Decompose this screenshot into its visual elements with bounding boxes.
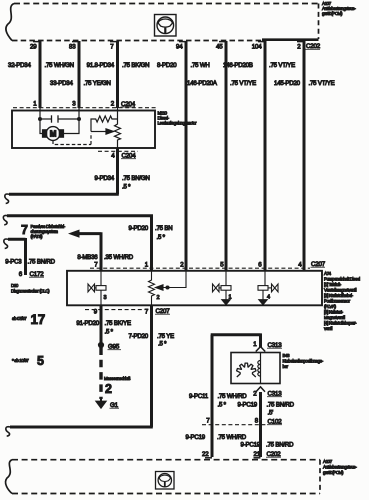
svg-text:9-PD20: 9-PD20 bbox=[129, 225, 149, 232]
connector C202 label (bottom) bbox=[266, 451, 281, 458]
valve 1 Taktluft-Verstellmagnetventil bbox=[213, 271, 232, 301]
svg-text:Antriebsstrangsteue-: Antriebsstrangsteue- bbox=[323, 465, 357, 470]
svg-text:5: 5 bbox=[37, 354, 44, 368]
connector C207 label (bottom) bbox=[155, 308, 170, 315]
ground-to-case arrow (valve 1) bbox=[222, 300, 231, 306]
svg-text:2: 2 bbox=[180, 262, 184, 269]
svg-text:22: 22 bbox=[202, 451, 209, 458]
connector C313 label (pin1) bbox=[267, 342, 282, 349]
module A74 box bbox=[67, 271, 322, 306]
svg-text:.75 WH: .75 WH bbox=[191, 62, 210, 69]
sensor B43 box bbox=[231, 353, 280, 384]
PCM pin 94 bbox=[176, 42, 186, 51]
valve 4 Kraftstoffabsperrventil bbox=[258, 271, 278, 301]
svg-text:2: 2 bbox=[297, 44, 301, 51]
svg-text:.5 *: .5 * bbox=[105, 329, 114, 336]
svg-text:[4] Kraftstoffabsperr-: [4] Kraftstoffabsperr- bbox=[324, 321, 357, 326]
PCM pin 83 bbox=[69, 42, 79, 51]
svg-text:.75 VT/YE: .75 VT/YE bbox=[309, 80, 335, 87]
wire 8-MB36 .35 WH/RD (arrow from left, to A74 pin7) bbox=[70, 230, 102, 270]
svg-text:M: M bbox=[50, 130, 57, 139]
svg-text:.5 *: .5 * bbox=[158, 341, 167, 348]
svg-text:8-PD20: 8-PD20 bbox=[157, 62, 177, 69]
svg-text:9-PD34: 9-PD34 bbox=[95, 175, 115, 182]
svg-text:33-PD34: 33-PD34 bbox=[50, 80, 73, 87]
svg-text:1: 1 bbox=[33, 101, 37, 108]
wire label 9-PD34 .75 BN/GN bbox=[95, 175, 150, 191]
valve 3 Kaltstart-Magnetventil bbox=[88, 271, 107, 306]
motor M (idle control motor) bbox=[40, 119, 79, 140]
wire label 32-PD34 .75 WH/GN bbox=[8, 62, 74, 69]
svg-text:94: 94 bbox=[176, 44, 183, 51]
wire 8-PD20 (pin94 to A74 pin2) bbox=[185, 41, 188, 271]
svg-text:.35 WH/RD: .35 WH/RD bbox=[104, 254, 134, 261]
connector C102 (in-line) bbox=[202, 418, 282, 426]
svg-text:gerät (PCM): gerät (PCM) bbox=[322, 11, 343, 16]
wire 145-PD20 (pin2 to A74 pin4) bbox=[303, 41, 306, 271]
label D20 Diagnosestecker (DLC) bbox=[11, 283, 50, 294]
wire 9-PC19 .75 BN/RD (B43 pin2 down to PCM pin21) bbox=[259, 392, 262, 457]
svg-text:7-PD20: 7-PD20 bbox=[129, 333, 149, 340]
circuit ref 7 PATS bbox=[21, 223, 66, 239]
ground symbol G1 bbox=[96, 397, 107, 409]
svg-text:146-PD20A: 146-PD20A bbox=[187, 80, 218, 87]
svg-text:.5 *: .5 * bbox=[122, 184, 131, 191]
svg-text:9-PC19: 9-PC19 bbox=[241, 442, 261, 449]
wire 91-PD20 .75 BK/YE (A74 pin9 to ground) bbox=[100, 306, 103, 344]
svg-text:91.8-PD34: 91.8-PD34 bbox=[87, 62, 115, 69]
svg-text:.75 WH/RD: .75 WH/RD bbox=[217, 434, 247, 441]
svg-text:Diagnosestecker (DLC): Diagnosestecker (DLC) bbox=[11, 289, 50, 294]
PCM pin 7 bbox=[110, 42, 117, 51]
connector C204 dashed line (top of M110) bbox=[13, 107, 157, 109]
svg-text:.75 VT/YE: .75 VT/YE bbox=[230, 80, 256, 87]
pickup coil inside B43 bbox=[258, 353, 261, 384]
circuit ref 5 (* ab 10/97) bbox=[12, 354, 44, 368]
mechanical link (dashed) motor to wiper bbox=[53, 133, 91, 145]
svg-text:(FLVR): (FLVR) bbox=[324, 304, 337, 309]
off-page hook (9-PD34) bbox=[5, 194, 9, 203]
wire label 8-PD20 .75 WH bbox=[157, 62, 210, 69]
connector C202 label (top) bbox=[306, 43, 321, 50]
ground lead (dashed heavy) bbox=[99, 348, 102, 400]
svg-text:3: 3 bbox=[104, 295, 107, 301]
svg-text:.75 YE/GN: .75 YE/GN bbox=[84, 80, 111, 87]
svg-text:7: 7 bbox=[21, 223, 28, 237]
svg-text:[3] Kaltstart-: [3] Kaltstart- bbox=[324, 310, 344, 315]
module A107 PCM (bottom) dashed box bbox=[6, 460, 320, 494]
svg-text:.5 *: .5 * bbox=[157, 234, 166, 241]
wire label 33-PD34 .75 YE/GN bbox=[50, 80, 111, 87]
svg-text:21: 21 bbox=[254, 451, 261, 458]
svg-text:.5': .5' bbox=[268, 410, 274, 417]
svg-text:Verstellmagnetventil: Verstellmagnetventil bbox=[324, 288, 357, 293]
svg-text:8-MB36: 8-MB36 bbox=[77, 254, 98, 261]
svg-text:83: 83 bbox=[69, 44, 76, 51]
svg-text:1: 1 bbox=[253, 341, 257, 348]
svg-text:Leerlaufregelungsmotor: Leerlaufregelungsmotor bbox=[158, 121, 198, 126]
wire 146-PD20B (pin104 to A74 pin6) bbox=[264, 41, 267, 271]
wire label 9-PC19 .75 WH/RD (below C102) bbox=[186, 434, 247, 441]
wiper arrow in M110 bbox=[91, 129, 114, 134]
M110 pin 4 / connector C204 bottom bbox=[98, 151, 138, 159]
svg-text:1: 1 bbox=[145, 262, 149, 269]
svg-text:.75 YE: .75 YE bbox=[157, 333, 174, 340]
label B43 Kurbelwellenpositionsgeber bbox=[283, 353, 324, 369]
svg-text:.5 *: .5 * bbox=[218, 402, 227, 409]
pin 6 / connector C172 bbox=[19, 271, 45, 278]
svg-text:4: 4 bbox=[111, 153, 115, 160]
label Masseanschluss / circuit ref 2 bbox=[104, 376, 131, 396]
wire 33-PD34 (pin83 to M110 pin3) bbox=[78, 41, 81, 108]
svg-text:45: 45 bbox=[216, 44, 223, 51]
svg-text:ber: ber bbox=[283, 364, 289, 369]
PCM icon (bottom steering wheel symbol) bbox=[156, 472, 175, 490]
resistor in M110 bbox=[91, 116, 118, 132]
connector C313 pin 1 arrow bbox=[253, 341, 265, 352]
svg-text:145-PD20: 145-PD20 bbox=[274, 80, 301, 87]
label M110 Diesel-Leerlaufregelungsmotor bbox=[158, 111, 198, 126]
wire 9-PD20 .75 BN (PATS branch to A74 pin1) bbox=[7, 214, 152, 270]
svg-text:D20: D20 bbox=[11, 283, 19, 288]
junction G95 bbox=[98, 342, 121, 350]
svg-text:A74: A74 bbox=[324, 271, 332, 276]
svg-text:9-PC19: 9-PC19 bbox=[186, 434, 206, 441]
svg-text:.75 BK/GN: .75 BK/GN bbox=[122, 62, 149, 69]
svg-text:Pumpeneinheit Diesel: Pumpeneinheit Diesel bbox=[324, 277, 360, 282]
connector C204 label (top) bbox=[121, 101, 136, 108]
PCM pin 104 bbox=[252, 42, 265, 51]
wire 32-PD34 (pin29 to M110 pin1) bbox=[39, 41, 42, 108]
svg-text:Positionssensor: Positionssensor bbox=[324, 299, 351, 304]
module M110 box bbox=[12, 111, 155, 149]
PCM pin 29 bbox=[30, 42, 40, 51]
label A107 Antriebsstrangsteuergeraet PCM (bottom) bbox=[323, 459, 357, 475]
wire label 145-PD20 .75 VT/YE bbox=[274, 80, 335, 87]
svg-text:.75 BK/YE: .75 BK/YE bbox=[105, 320, 131, 327]
svg-text:.75 BN/GN: .75 BN/GN bbox=[122, 175, 150, 182]
svg-text:.75 BN/RD: .75 BN/RD bbox=[267, 402, 295, 409]
ground-to-case arrow (valve 4) bbox=[259, 300, 268, 306]
PCM pin 2 bbox=[297, 42, 304, 51]
svg-text:146-PD20B: 146-PD20B bbox=[223, 62, 253, 69]
svg-text:.75 VT/YE: .75 VT/YE bbox=[269, 62, 295, 69]
svg-text:4: 4 bbox=[298, 262, 302, 269]
svg-text:2: 2 bbox=[157, 295, 160, 301]
svg-text:B43: B43 bbox=[283, 353, 291, 358]
wire 91.8-PD34 (pin7 to M110 pin2) bbox=[116, 41, 119, 108]
svg-text:.75 BN/RD: .75 BN/RD bbox=[28, 259, 56, 266]
svg-text:ventil: ventil bbox=[324, 326, 333, 331]
svg-text:2: 2 bbox=[111, 101, 115, 108]
connector C207 label (top) bbox=[311, 261, 326, 268]
off-page hook (7-PD20) bbox=[6, 427, 10, 436]
svg-text:Kurbelwellenpositionsge-: Kurbelwellenpositionsge- bbox=[283, 359, 324, 364]
wire label 9-PC11 .75 WH/RD (above C102) bbox=[189, 393, 247, 409]
PCM pin 45 bbox=[216, 42, 226, 51]
wire 9-PC3 .75 BN/RD (off-page to DLC C172) bbox=[8, 238, 26, 275]
label A107 Antriebsstrangsteuergeraet PCM (top) bbox=[322, 1, 356, 16]
svg-text:A107: A107 bbox=[323, 459, 333, 464]
connector C313 pin 2 arrow bbox=[253, 387, 265, 398]
wire 9-PD34 .75 BN/GN (M110 pin4, off-page left) bbox=[9, 148, 119, 194]
svg-text:.75 BN/RD: .75 BN/RD bbox=[266, 442, 294, 449]
A74 legend text bbox=[324, 271, 360, 331]
svg-text:3: 3 bbox=[72, 101, 76, 108]
svg-text:104: 104 bbox=[252, 44, 262, 51]
svg-text:gerät (PCM): gerät (PCM) bbox=[323, 470, 344, 475]
position sensor FLVR potentiometer (component 2) bbox=[149, 271, 160, 306]
potentiometer in M110 bbox=[115, 108, 121, 148]
svg-text:(PATS): (PATS) bbox=[31, 234, 44, 239]
off-page hook (PATS wire) bbox=[3, 215, 7, 224]
svg-text:6: 6 bbox=[258, 262, 262, 269]
wire label 9-PC19 .75 BN/RD (below C102) bbox=[241, 442, 295, 449]
svg-text:Masseanschluß: Masseanschluß bbox=[104, 376, 131, 381]
svg-text:[1] Taktluft-: [1] Taktluft- bbox=[324, 282, 342, 287]
svg-text:9: 9 bbox=[94, 309, 98, 316]
wire 9-PC11 .75 WH/RD (loop up-over to B43 pin1) bbox=[211, 333, 261, 457]
svg-text:7: 7 bbox=[94, 262, 98, 269]
label G1 bbox=[110, 402, 120, 409]
module A107 PCM (top) dashed box bbox=[6, 4, 319, 41]
wire label 91-PD20 .75 BK/YE bbox=[76, 320, 131, 336]
svg-text:* ab 10/97: * ab 10/97 bbox=[12, 358, 29, 363]
svg-text:7: 7 bbox=[110, 44, 114, 51]
wire 7-PD20 .75 YE (A74 pin7, off-page left) bbox=[10, 306, 153, 428]
gear icon (toothed wheel) bbox=[237, 363, 256, 377]
off-page hook (DLC wire) bbox=[4, 239, 8, 248]
PCM icon (top steering wheel symbol) bbox=[155, 15, 177, 37]
svg-text:Magnetventil: Magnetventil bbox=[324, 315, 345, 320]
wire label 7-PD20 .75 YE bbox=[129, 333, 175, 348]
wire label 91.8-PD34 .75 BK/GN bbox=[87, 62, 150, 69]
wire label 9-PC3 .75 BN/RD bbox=[5, 259, 55, 266]
wire label 146-PD20B .75 VT/YE bbox=[223, 62, 295, 69]
svg-text:32-PD34: 32-PD34 bbox=[8, 62, 31, 69]
svg-text:7: 7 bbox=[206, 418, 210, 425]
PCM pin 22 (bottom) bbox=[202, 451, 212, 458]
svg-text:6: 6 bbox=[19, 271, 23, 278]
svg-text:29: 29 bbox=[30, 44, 37, 51]
connector C207 dashed line (top of A74) bbox=[90, 267, 310, 269]
connector C313 label (pin2) bbox=[267, 391, 282, 398]
svg-text:.75 WH/GN: .75 WH/GN bbox=[45, 62, 74, 69]
svg-text:8: 8 bbox=[255, 418, 259, 425]
svg-text:.75 WH/RD: .75 WH/RD bbox=[218, 393, 248, 400]
wire label 9-PC19 .75 BN/RD (above C102) bbox=[238, 402, 295, 417]
svg-text:9-PC11: 9-PC11 bbox=[189, 393, 209, 400]
svg-text:ab 07/97: ab 07/97 bbox=[12, 316, 27, 321]
svg-text:17: 17 bbox=[31, 312, 45, 327]
svg-text:.75 BN: .75 BN bbox=[155, 225, 172, 232]
svg-text:[2] Kraftstoffhebel-: [2] Kraftstoffhebel- bbox=[324, 293, 354, 298]
svg-text:9-PC19: 9-PC19 bbox=[238, 402, 258, 409]
wiper from A74 pin 2 bbox=[156, 271, 187, 290]
svg-text:5: 5 bbox=[220, 262, 224, 269]
wire 146-PD20A (pin45 to A74 pin5) bbox=[225, 41, 228, 271]
capacitor (suppression) in M110 bbox=[52, 115, 59, 122]
wire label 146-PD20A .75 VT/YE bbox=[187, 80, 256, 87]
PCM pin 21 (bottom) bbox=[254, 451, 261, 458]
svg-text:91-PD20: 91-PD20 bbox=[76, 320, 99, 327]
svg-text:2: 2 bbox=[105, 382, 112, 396]
svg-text:9-PC3: 9-PC3 bbox=[5, 259, 22, 266]
node: motor feed bus with junction dots bbox=[39, 108, 81, 120]
wire label 9-PD20 .75 BN bbox=[129, 225, 173, 241]
wire label 8-MB36 .35 WH/RD bbox=[77, 254, 133, 261]
connector C207 bottom dashed line bbox=[85, 309, 150, 311]
circuit ref 17 (ab 07/97) bbox=[12, 312, 45, 327]
